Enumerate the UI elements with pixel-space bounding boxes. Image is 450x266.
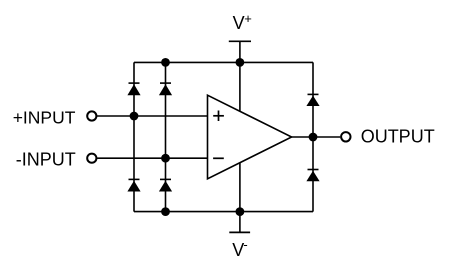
op-amp U1 body [208, 95, 292, 179]
junction: V- supply to rail [236, 207, 245, 216]
wire: op-amp V- supply [239, 163, 241, 212]
V- supply bar [229, 231, 250, 233]
wire: -input lead [97, 157, 208, 159]
wire: +input lead [97, 115, 208, 117]
wire: bottom V- rail [134, 211, 313, 213]
wire: left clamp column (+input diodes) [133, 62, 135, 211]
terminal: output [341, 132, 350, 141]
svg-text:-INPUT: -INPUT [16, 150, 76, 170]
junction: -input node [161, 154, 170, 163]
op-amp inverting input marker (-) [213, 157, 224, 159]
wire: right clamp column (output diodes) [312, 62, 314, 211]
wire: top V+ rail [134, 61, 313, 63]
diode: V- to output clamp [306, 170, 319, 182]
V+ supply stem [239, 41, 241, 62]
svg-text:-: - [243, 237, 247, 252]
wire: middle clamp column (-input diodes) [165, 62, 167, 211]
terminal: -input [87, 154, 96, 163]
svg-text:V: V [233, 13, 245, 33]
wire: op-amp V+ supply [239, 62, 241, 111]
diode: V- to -input clamp [159, 179, 172, 191]
svg-text:+INPUT: +INPUT [13, 107, 76, 127]
diode: -input to V+ clamp [159, 83, 172, 95]
junction: +input node [130, 112, 139, 121]
diode: output to V+ clamp [306, 94, 319, 106]
svg-text:OUTPUT: OUTPUT [361, 126, 435, 146]
wire: output lead [292, 136, 341, 138]
diode: V- to +input clamp [127, 179, 140, 191]
terminal: +input [87, 111, 96, 120]
svg-text:+: + [244, 11, 252, 26]
junction: output node [309, 133, 318, 142]
op-amp non-inverting input marker (+) [213, 111, 224, 122]
V+ supply bar [229, 40, 251, 42]
junction: middle column to V+ rail [161, 58, 170, 67]
junction: V+ supply to rail [236, 58, 245, 67]
junction: middle column to V- rail [161, 207, 170, 216]
V- supply stem [239, 212, 241, 233]
diode: +input to V+ clamp [127, 83, 140, 95]
